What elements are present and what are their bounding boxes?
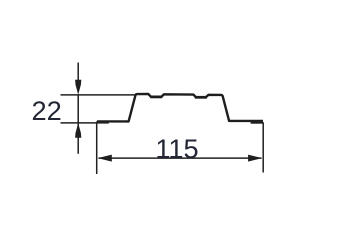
profile sheet outline (trapezoidal rib cross-section) [97,94,263,121]
right bottom flange lap step [251,121,263,124]
dimension line 22, span between flange levels [77,95,79,123]
arrowhead right (dim 115) [248,155,262,162]
arrowhead left (dim 115) [98,155,112,162]
dimension line 22, lower tail [77,123,79,154]
extension line, top flange level (dim 22) [61,94,136,96]
top flange stiffening groove 2 [195,96,207,99]
left bottom flange lap step [96,121,108,124]
extension line, bottom flange level (dim 22) [61,122,97,124]
top flange stiffening groove 1 [150,96,162,99]
extension line right (dim 115) [262,122,264,172]
svg-text:22: 22 [31,95,61,126]
dimension line 22, upper tail [77,63,79,82]
extension line left (dim 115) [96,124,98,175]
dimension line 115 [99,157,262,159]
svg-text:115: 115 [155,133,198,164]
arrowhead up (dim 22) [75,123,81,138]
arrowhead down (dim 22) [75,80,81,95]
